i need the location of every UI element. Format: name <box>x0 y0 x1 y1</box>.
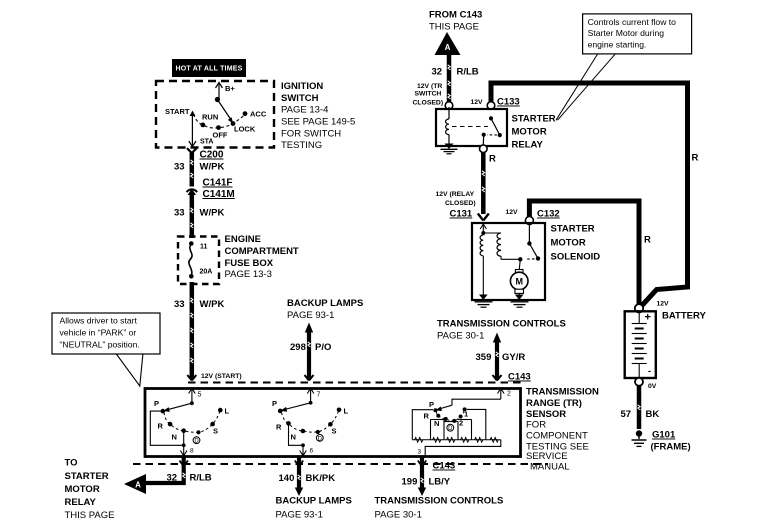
contact P <box>429 400 437 412</box>
contact dashed arc <box>437 409 465 421</box>
svg-text:C131: C131 <box>450 209 473 220</box>
contact OFF <box>213 125 228 139</box>
svg-text:N: N <box>172 433 177 442</box>
solenoid ground (motor side) <box>511 295 529 308</box>
svg-text:CLOSED): CLOSED) <box>445 200 476 207</box>
tap box 2 <box>457 422 459 440</box>
contact L <box>218 407 230 416</box>
svg-text:BK/PK: BK/PK <box>306 473 336 484</box>
svg-text:33: 33 <box>174 208 185 219</box>
svg-text:3: 3 <box>418 449 422 456</box>
wire 33 W/PK (C141 to fuse box) <box>174 193 224 238</box>
svg-text:S: S <box>332 427 337 436</box>
svg-text:R: R <box>158 422 164 431</box>
terminal B+ <box>215 83 236 103</box>
svg-text:33: 33 <box>174 162 185 173</box>
svg-text:A: A <box>445 43 451 52</box>
contact N <box>434 417 448 428</box>
connector flare C143 on wire 32 <box>180 461 188 467</box>
wiper feed from pin 2 <box>452 399 501 405</box>
junction pin 6 <box>301 443 305 447</box>
svg-text:33: 33 <box>174 299 185 310</box>
svg-text:RELAY: RELAY <box>512 140 544 151</box>
svg-text:SENSOR: SENSOR <box>526 409 566 420</box>
note: allows driver to start in PARK/NEUTRAL <box>52 313 160 386</box>
battery feed cable R (relay to battery junction) <box>491 83 688 307</box>
svg-text:RUN: RUN <box>202 113 218 122</box>
connector flare at C143 (wire 298 end) <box>305 375 314 381</box>
wire to pin 3 <box>425 440 501 456</box>
wire 32 R/LB from arrow to relay <box>432 55 479 102</box>
off-page arrow A (to starter motor relay) <box>124 474 146 494</box>
off-page arrow A (from C143) <box>435 32 461 55</box>
svg-text:Starter Motor during: Starter Motor during <box>588 28 665 38</box>
ground G101 label <box>651 430 691 453</box>
pin C133 right (battery feed) <box>487 102 495 110</box>
SECTION: TR SENSOR <box>145 372 599 473</box>
svg-text:N: N <box>434 419 439 428</box>
svg-text:PAGE 93-1: PAGE 93-1 <box>276 510 323 521</box>
svg-text:C133: C133 <box>497 97 520 108</box>
svg-text:S: S <box>213 427 218 436</box>
svg-text:D: D <box>448 426 453 432</box>
contact START <box>165 107 195 116</box>
svg-text:12V (START): 12V (START) <box>201 373 242 380</box>
wiper arm to P <box>435 405 452 411</box>
engine compartment fuse box dashed enclosure <box>178 237 219 285</box>
svg-text:N: N <box>291 433 296 442</box>
svg-text:C132: C132 <box>537 209 560 220</box>
svg-text:M: M <box>515 277 523 287</box>
wiper arm to P <box>163 403 192 412</box>
contact 2 <box>459 415 464 428</box>
svg-text:20A: 20A <box>200 269 213 276</box>
pin 6 <box>300 445 314 456</box>
svg-text:11: 11 <box>200 244 208 251</box>
starter motor M <box>510 259 528 296</box>
SECTION: IGNITION SWITCH <box>156 59 355 151</box>
svg-text:D: D <box>194 439 199 445</box>
contact 1 <box>463 407 469 418</box>
connector flare at C143 (wire 33 end) <box>187 375 196 381</box>
tap box 1 <box>430 420 432 440</box>
svg-text:TO: TO <box>65 458 78 469</box>
wire P to pin 8 rail <box>150 411 183 445</box>
svg-text:R: R <box>644 235 651 246</box>
svg-text:SWITCH: SWITCH <box>281 93 319 104</box>
svg-text:12V: 12V <box>506 209 519 216</box>
svg-text:P: P <box>429 400 434 409</box>
contact dashed arc <box>282 410 340 432</box>
SECTION: TOP RIGHT <box>413 10 699 307</box>
svg-text:SOLENOID: SOLENOID <box>551 252 601 263</box>
svg-text:CLOSED): CLOSED) <box>413 100 444 107</box>
wire 359 GY/R to transmission controls <box>476 333 526 381</box>
svg-text:MOTOR: MOTOR <box>65 484 100 495</box>
destination text: to starter motor relay <box>65 458 115 522</box>
svg-text:LOCK: LOCK <box>234 125 256 134</box>
ignition switch name text <box>281 81 355 151</box>
starter motor solenoid enclosure <box>472 223 545 300</box>
svg-text:199: 199 <box>402 477 418 488</box>
svg-text:SERVICE: SERVICE <box>526 451 568 462</box>
svg-text:0V: 0V <box>648 383 657 390</box>
pin C133 left (12V TR) <box>445 102 453 110</box>
wire 57 BK <box>621 386 660 429</box>
svg-text:engine starting.: engine starting. <box>588 40 647 50</box>
svg-text:MOTOR: MOTOR <box>512 127 547 138</box>
wire R to pin 6 rail <box>289 423 304 445</box>
pin relay output <box>480 145 488 153</box>
battery cells <box>632 311 651 377</box>
svg-text:FOR SWITCH: FOR SWITCH <box>281 129 341 140</box>
destination text: transmission controls (top) <box>437 319 566 342</box>
wiper arm to P <box>280 403 310 412</box>
contact S <box>328 422 336 436</box>
svg-text:+: + <box>645 312 651 324</box>
TR switch section 2 <box>272 388 349 456</box>
svg-text:TRANSMISSION: TRANSMISSION <box>526 387 599 398</box>
contact P <box>154 399 165 413</box>
pin 8 <box>180 445 194 456</box>
svg-text:TRANSMISSION CONTROLS: TRANSMISSION CONTROLS <box>375 496 504 507</box>
switch arm B+ to LOCK <box>217 100 233 124</box>
svg-text:12V: 12V <box>471 99 484 106</box>
svg-text:GY/R: GY/R <box>502 352 525 363</box>
svg-text:5: 5 <box>198 392 202 399</box>
connector C143 dashed line (top half) <box>188 372 531 383</box>
contact S <box>210 422 218 436</box>
wire 33 W/PK (fuse box to TR sensor) <box>174 282 224 379</box>
svg-text:HOT AT ALL TIMES: HOT AT ALL TIMES <box>176 66 243 73</box>
svg-text:BK: BK <box>646 409 660 420</box>
svg-text:STARTER: STARTER <box>65 471 109 482</box>
pin C132 <box>525 217 533 225</box>
wire 199 LB/Y <box>402 457 451 496</box>
contact D (circled) <box>193 430 200 444</box>
contact R <box>276 421 291 431</box>
relay ground <box>441 144 458 154</box>
SECTION: SOLENOID <box>472 201 651 307</box>
svg-text:7: 7 <box>317 392 321 399</box>
svg-text:L: L <box>344 407 349 416</box>
svg-text:TESTING: TESTING <box>281 140 322 151</box>
svg-text:P: P <box>272 399 277 408</box>
svg-text:COMPARTMENT: COMPARTMENT <box>225 246 299 257</box>
svg-text:R/LB: R/LB <box>457 67 479 78</box>
svg-text:BACKUP LAMPS: BACKUP LAMPS <box>287 298 363 309</box>
TR sensor name text <box>526 387 599 473</box>
svg-text:8: 8 <box>190 448 194 455</box>
svg-text:R: R <box>276 423 282 432</box>
SECTION: LEFT WIRE RUN <box>174 148 242 380</box>
svg-text:P/O: P/O <box>315 342 331 353</box>
ignition switch S1 dashed enclosure <box>156 81 274 148</box>
svg-text:RELAY: RELAY <box>65 497 97 508</box>
contact L <box>337 407 349 416</box>
svg-text:SEE PAGE 149-5: SEE PAGE 149-5 <box>281 117 355 128</box>
junction pin 8 <box>182 443 186 447</box>
connector flare at C143 (wire 359 end) <box>493 375 502 381</box>
contact LOCK <box>231 121 256 133</box>
TR switch section 1 <box>150 388 229 456</box>
svg-text:TRANSMISSION CONTROLS: TRANSMISSION CONTROLS <box>437 319 566 330</box>
connector flare C143 on wire 140 <box>295 461 303 467</box>
svg-text:2: 2 <box>507 391 511 398</box>
svg-text:IGNITION: IGNITION <box>281 81 323 92</box>
hot-at-all-times banner <box>172 59 246 77</box>
contact R <box>158 422 173 431</box>
svg-text:12V: 12V <box>657 301 670 308</box>
svg-text:32: 32 <box>167 473 178 484</box>
relay coil <box>446 107 449 145</box>
contact RUN <box>201 113 219 128</box>
svg-text:Controls current flow to: Controls current flow to <box>588 17 677 27</box>
SECTION: FUSE BOX <box>178 234 299 284</box>
note leader lines <box>556 54 615 120</box>
svg-text:W/PK: W/PK <box>200 162 225 173</box>
starter motor relay enclosure <box>436 109 507 146</box>
wire 140 BK/PK <box>279 457 336 496</box>
contact N <box>172 428 187 441</box>
relay name text <box>512 114 556 151</box>
connector C143 dashed line (bottom half) <box>133 463 548 465</box>
solenoid switch <box>518 224 540 261</box>
battery positive junction node <box>635 304 643 312</box>
wire 32 R/LB to starter relay <box>145 457 212 484</box>
contact R <box>424 412 441 421</box>
svg-text:LB/Y: LB/Y <box>429 477 451 488</box>
svg-text:THIS PAGE: THIS PAGE <box>65 510 115 521</box>
solenoid input arrow <box>480 224 486 233</box>
contact D (circled) <box>316 430 324 442</box>
solenoid name text <box>551 224 601 263</box>
svg-text:W/PK: W/PK <box>200 299 225 310</box>
contact ACC <box>243 110 267 119</box>
destination text: backup lamps (top) <box>287 298 363 321</box>
connector C141F / C141M <box>187 178 235 201</box>
svg-text:A: A <box>135 481 141 490</box>
TR sensor enclosure <box>145 389 521 457</box>
svg-text:PAGE 30-1: PAGE 30-1 <box>375 510 422 521</box>
pin 7 <box>307 388 320 403</box>
svg-text:R: R <box>489 154 496 165</box>
svg-text:PAGE 13-3: PAGE 13-3 <box>225 269 272 280</box>
wire 298 P/O to backup lamps <box>290 323 331 381</box>
svg-text:1: 1 <box>464 410 468 419</box>
note: controls current flow <box>583 14 692 54</box>
contact P <box>272 399 283 413</box>
destination text: backup lamps (bottom) <box>276 496 352 521</box>
svg-text:FROM C143: FROM C143 <box>429 10 482 21</box>
svg-text:PAGE 13-4: PAGE 13-4 <box>281 105 328 116</box>
svg-text:6: 6 <box>310 448 314 455</box>
SECTION: BATTERY <box>621 301 707 453</box>
svg-text:-: - <box>648 366 651 376</box>
fuse box name text <box>225 234 299 280</box>
junction <box>481 231 485 235</box>
wire N to pin 8 <box>183 431 185 446</box>
svg-text:vehicle in “PARK” or: vehicle in “PARK” or <box>60 328 137 338</box>
resistor ladder left rail <box>412 410 433 440</box>
svg-text:THIS PAGE: THIS PAGE <box>429 22 479 33</box>
contact N <box>291 429 306 442</box>
svg-text:B+: B+ <box>225 84 235 93</box>
svg-text:ACC: ACC <box>250 110 267 119</box>
resistor chain bottom rail <box>412 437 501 442</box>
pin 2 <box>498 388 512 399</box>
svg-text:ENGINE: ENGINE <box>225 234 261 245</box>
svg-text:BATTERY: BATTERY <box>662 311 706 322</box>
battery negative node <box>635 378 643 386</box>
pin 5 <box>189 388 202 403</box>
svg-text:STARTER: STARTER <box>551 224 595 235</box>
svg-text:G101: G101 <box>652 430 676 441</box>
svg-text:R: R <box>692 153 699 164</box>
svg-text:FUSE BOX: FUSE BOX <box>225 258 274 269</box>
svg-text:RANGE (TR): RANGE (TR) <box>526 398 582 409</box>
svg-text:C143: C143 <box>508 372 531 383</box>
ground G101 <box>632 430 647 446</box>
junction <box>190 401 194 405</box>
svg-text:C200: C200 <box>200 150 224 161</box>
wire START to STA terminal <box>189 112 214 147</box>
SECTION: BOTTOM WIRES <box>65 457 549 521</box>
SECTION: RELAY <box>436 97 556 221</box>
svg-text:C143: C143 <box>433 461 456 472</box>
rotary contact dashed arc <box>194 114 246 128</box>
tap box 3 <box>471 420 473 440</box>
net 12V (TR SWITCH CLOSED) label <box>413 83 444 107</box>
relay actuation dashed link <box>452 126 488 128</box>
source text: from C143 <box>429 10 482 33</box>
svg-text:D: D <box>318 436 323 442</box>
SECTION: MIDDLE WIRES <box>287 298 566 381</box>
svg-text:BACKUP LAMPS: BACKUP LAMPS <box>276 496 352 507</box>
junction <box>309 401 313 405</box>
svg-text:(FRAME): (FRAME) <box>651 442 691 453</box>
battery enclosure <box>625 311 656 378</box>
svg-text:L: L <box>225 407 230 416</box>
svg-text:R: R <box>424 412 430 421</box>
SECTION: CALLOUT LEFT <box>52 313 160 386</box>
battery cable R (C132 to battery junction) <box>529 201 639 305</box>
resistor ladder right rail <box>467 409 486 439</box>
svg-text:R/LB: R/LB <box>190 473 212 484</box>
solenoid hold-in coil <box>480 235 483 296</box>
svg-text:SWITCH: SWITCH <box>415 91 442 98</box>
svg-text:STARTER: STARTER <box>512 114 556 125</box>
connector flare C143 on wire 199 <box>418 461 426 467</box>
net 12V (RELAY CLOSED) label <box>436 191 476 207</box>
svg-text:W/PK: W/PK <box>200 208 225 219</box>
svg-text:P: P <box>154 399 159 408</box>
solenoid pull-in coil <box>483 233 520 259</box>
relay switch <box>482 116 502 145</box>
svg-text:PAGE 93-1: PAGE 93-1 <box>287 310 334 321</box>
wire R (relay to solenoid) <box>482 153 496 215</box>
svg-text:Allows driver to start: Allows driver to start <box>60 316 138 326</box>
svg-text:C141M: C141M <box>203 189 235 200</box>
svg-text:12V (RELAY: 12V (RELAY <box>436 191 475 198</box>
wire 33 W/PK (C200 to C141) <box>174 153 224 187</box>
solenoid ground (coil side) <box>475 295 493 308</box>
fuse F11 20A <box>189 241 212 278</box>
svg-text:FOR: FOR <box>526 420 546 431</box>
contact dashed arc <box>164 410 220 432</box>
svg-text:57: 57 <box>621 409 632 420</box>
svg-text:PAGE 30-1: PAGE 30-1 <box>437 331 484 342</box>
svg-text:32: 32 <box>432 67 443 78</box>
svg-text:12V (TR: 12V (TR <box>417 83 442 90</box>
connector C200 <box>187 148 224 160</box>
contact D (circled) <box>447 419 456 432</box>
svg-text:STA: STA <box>200 139 213 146</box>
svg-text:C141F: C141F <box>203 178 233 189</box>
svg-text:OFF: OFF <box>213 131 228 140</box>
svg-text:“NEUTRAL” position.: “NEUTRAL” position. <box>60 340 140 350</box>
svg-text:298: 298 <box>290 342 306 353</box>
destination text: transmission controls (bottom) <box>375 496 504 521</box>
svg-text:START: START <box>165 107 190 116</box>
svg-text:359: 359 <box>476 352 492 363</box>
svg-text:MOTOR: MOTOR <box>551 238 586 249</box>
svg-text:140: 140 <box>279 473 295 484</box>
TR resistor network section <box>412 388 511 456</box>
connector flare C131 <box>478 214 489 221</box>
svg-text:COMPONENT: COMPONENT <box>526 431 588 442</box>
